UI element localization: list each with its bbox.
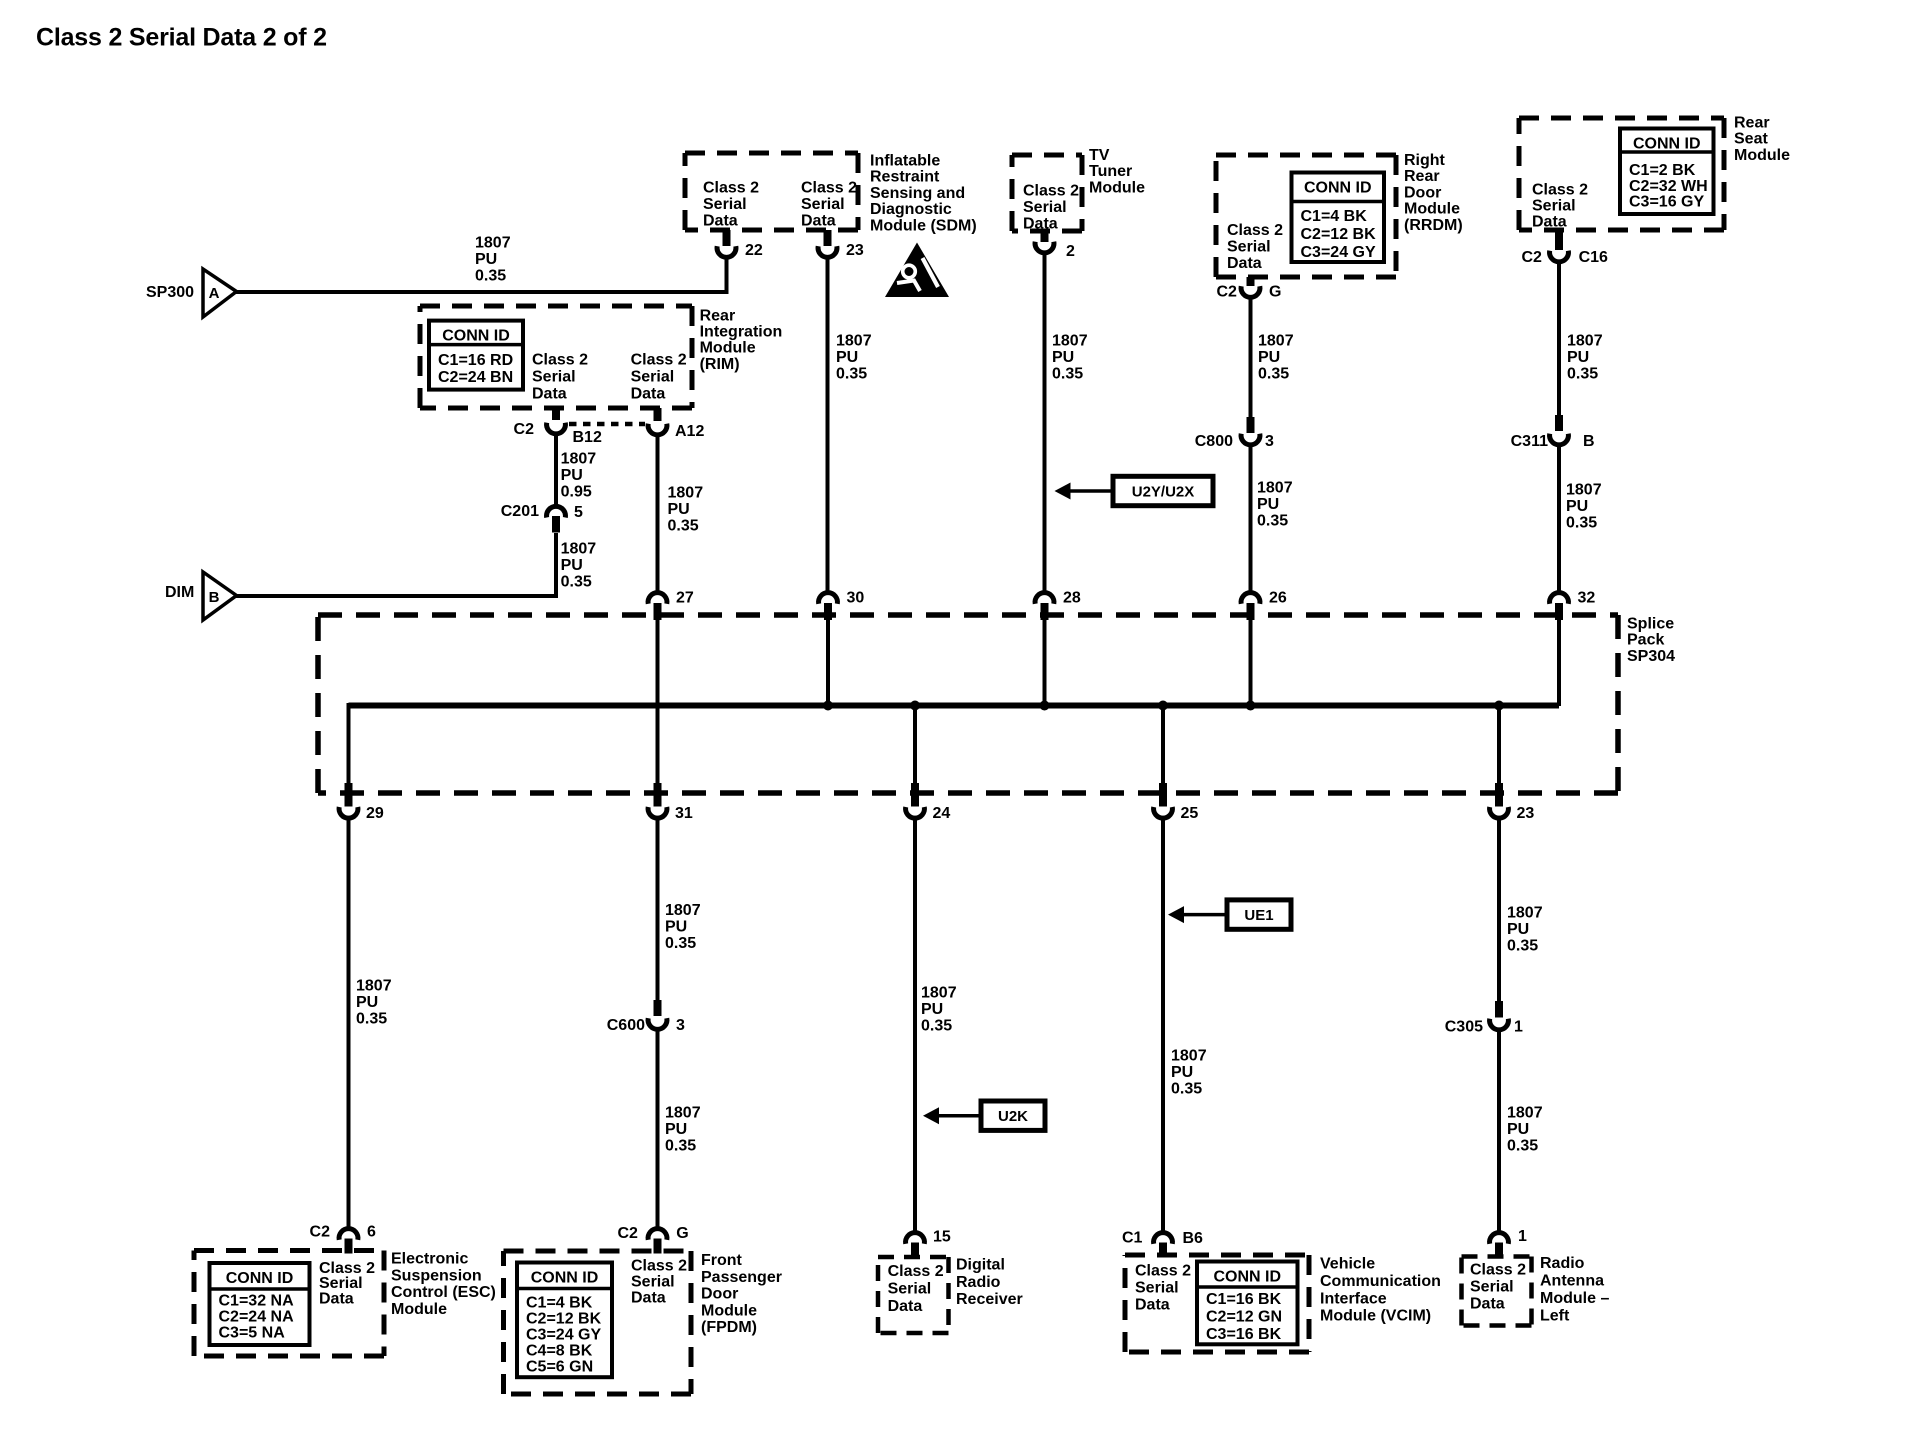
svg-text:Class 2: Class 2 (532, 352, 588, 369)
svg-text:Front: Front (701, 1252, 743, 1269)
svg-text:PU: PU (1566, 498, 1588, 515)
svg-text:C800: C800 (1195, 433, 1233, 450)
svg-text:PU: PU (561, 557, 583, 574)
svg-text:3: 3 (1265, 433, 1274, 450)
svg-text:Interface: Interface (1320, 1290, 1387, 1307)
svg-text:0.35: 0.35 (1507, 938, 1538, 955)
svg-text:Module (VCIM): Module (VCIM) (1320, 1308, 1431, 1325)
svg-text:Splice: Splice (1627, 616, 1674, 633)
svg-text:CONN ID: CONN ID (1304, 180, 1372, 197)
svg-text:Communication: Communication (1320, 1273, 1441, 1290)
svg-text:C311: C311 (1511, 433, 1548, 450)
svg-text:B: B (1583, 433, 1595, 450)
svg-text:CONN ID: CONN ID (226, 1270, 294, 1287)
svg-text:Rear: Rear (1734, 115, 1770, 132)
svg-text:Pack: Pack (1627, 632, 1664, 649)
svg-text:Antenna: Antenna (1540, 1273, 1604, 1290)
svg-text:(RIM): (RIM) (700, 356, 740, 373)
svg-text:0.35: 0.35 (356, 1011, 387, 1028)
svg-text:Serial: Serial (532, 369, 576, 386)
svg-text:Control (ESC): Control (ESC) (391, 1284, 496, 1301)
svg-text:Class 2: Class 2 (1470, 1262, 1526, 1279)
svg-text:Serial: Serial (703, 196, 747, 213)
svg-text:0.35: 0.35 (561, 574, 592, 591)
svg-text:C1=16 BK: C1=16 BK (1206, 1291, 1282, 1308)
svg-text:1807: 1807 (665, 1105, 701, 1122)
svg-text:C1: C1 (1122, 1230, 1143, 1247)
svg-text:Passenger: Passenger (701, 1269, 782, 1286)
svg-text:C2=24 NA: C2=24 NA (219, 1309, 295, 1326)
svg-text:25: 25 (1181, 805, 1199, 822)
svg-text:Receiver: Receiver (956, 1291, 1023, 1308)
svg-text:29: 29 (366, 805, 384, 822)
svg-text:1807: 1807 (561, 541, 597, 558)
svg-text:C2: C2 (1217, 284, 1238, 301)
svg-text:1807: 1807 (1257, 480, 1293, 497)
svg-text:PU: PU (1257, 496, 1279, 513)
svg-text:PU: PU (668, 501, 690, 518)
svg-text:C1=32 NA: C1=32 NA (219, 1293, 295, 1310)
svg-text:G: G (676, 1225, 688, 1242)
svg-text:Tuner: Tuner (1089, 163, 1132, 180)
svg-text:Class 2: Class 2 (1532, 182, 1588, 199)
svg-text:Suspension: Suspension (391, 1267, 482, 1284)
svg-text:32: 32 (1578, 590, 1596, 607)
svg-text:C3=24 GY: C3=24 GY (526, 1327, 601, 1344)
svg-text:0.35: 0.35 (1258, 366, 1289, 383)
svg-text:Radio: Radio (956, 1274, 1001, 1291)
svg-text:Sensing and: Sensing and (870, 185, 965, 202)
svg-text:Serial: Serial (1470, 1279, 1514, 1296)
svg-text:1807: 1807 (1052, 333, 1088, 350)
svg-text:C16: C16 (1579, 249, 1608, 266)
svg-text:1807: 1807 (1507, 905, 1543, 922)
svg-text:6: 6 (367, 1224, 376, 1241)
svg-text:Class 2 Serial Data 2 of 2: Class 2 Serial Data 2 of 2 (36, 24, 327, 52)
svg-text:Data: Data (1532, 214, 1567, 231)
svg-text:3: 3 (676, 1017, 685, 1034)
svg-text:Data: Data (631, 1290, 666, 1307)
svg-text:Module: Module (700, 340, 756, 357)
svg-text:SP304: SP304 (1627, 648, 1675, 665)
svg-text:31: 31 (675, 805, 693, 822)
svg-text:30: 30 (847, 590, 865, 607)
svg-text:0.35: 0.35 (1507, 1138, 1538, 1155)
svg-text:Diagnostic: Diagnostic (870, 201, 952, 218)
svg-text:0.35: 0.35 (475, 268, 506, 285)
svg-text:0.35: 0.35 (668, 518, 699, 535)
svg-text:C2: C2 (310, 1224, 331, 1241)
svg-text:0.35: 0.35 (836, 366, 867, 383)
svg-text:CONN ID: CONN ID (1213, 1269, 1281, 1286)
svg-text:Module: Module (391, 1301, 447, 1318)
svg-text:C1=2 BK: C1=2 BK (1629, 162, 1696, 179)
svg-text:Data: Data (319, 1290, 354, 1307)
svg-text:A: A (209, 285, 220, 302)
svg-text:Seat: Seat (1734, 131, 1768, 148)
svg-text:22: 22 (745, 242, 763, 259)
svg-text:Data: Data (532, 386, 567, 403)
svg-text:C1=16 RD: C1=16 RD (438, 352, 513, 369)
svg-text:C2=32 WH: C2=32 WH (1629, 178, 1708, 195)
svg-text:Class 2: Class 2 (1227, 222, 1283, 239)
svg-text:1807: 1807 (475, 235, 511, 252)
svg-text:Data: Data (631, 386, 666, 403)
svg-text:Class 2: Class 2 (631, 352, 687, 369)
svg-text:B: B (209, 589, 220, 606)
svg-text:0.95: 0.95 (561, 484, 592, 501)
svg-text:Data: Data (801, 213, 836, 230)
svg-text:PU: PU (356, 994, 378, 1011)
svg-text:1807: 1807 (921, 985, 957, 1002)
svg-text:Module (SDM): Module (SDM) (870, 217, 977, 234)
svg-text:Integration: Integration (700, 324, 783, 341)
svg-text:PU: PU (1507, 1121, 1529, 1138)
svg-text:CONN ID: CONN ID (1633, 136, 1701, 153)
svg-text:C2: C2 (1522, 249, 1543, 266)
svg-text:C201: C201 (501, 503, 539, 520)
svg-text:Class 2: Class 2 (631, 1258, 687, 1275)
svg-text:C2=12 BK: C2=12 BK (526, 1311, 602, 1328)
svg-text:C2=12 GN: C2=12 GN (1206, 1308, 1282, 1325)
svg-text:UE1: UE1 (1244, 907, 1273, 924)
svg-text:B12: B12 (573, 429, 602, 446)
svg-text:Serial: Serial (631, 1274, 675, 1291)
svg-text:0.35: 0.35 (921, 1018, 952, 1035)
svg-text:Data: Data (1135, 1297, 1170, 1314)
svg-text:23: 23 (1517, 805, 1535, 822)
svg-text:Class 2: Class 2 (1135, 1263, 1191, 1280)
svg-text:C305: C305 (1445, 1019, 1483, 1036)
svg-text:Module –: Module – (1540, 1290, 1609, 1307)
svg-text:Serial: Serial (801, 196, 845, 213)
svg-text:Serial: Serial (1532, 198, 1576, 215)
svg-text:C2=12 BK: C2=12 BK (1301, 226, 1377, 243)
svg-text:1807: 1807 (1567, 333, 1603, 350)
svg-text:28: 28 (1063, 590, 1081, 607)
svg-text:Class 2: Class 2 (1023, 183, 1079, 200)
svg-text:2: 2 (1066, 243, 1075, 260)
svg-text:1807: 1807 (836, 333, 872, 350)
svg-text:Rear: Rear (1404, 168, 1440, 185)
svg-text:Digital: Digital (956, 1257, 1005, 1274)
svg-text:SP300: SP300 (146, 284, 194, 301)
svg-text:TV: TV (1089, 147, 1110, 164)
svg-text:C3=24 GY: C3=24 GY (1301, 244, 1376, 261)
svg-text:PU: PU (1258, 349, 1280, 366)
svg-text:27: 27 (676, 590, 694, 607)
svg-text:1807: 1807 (668, 485, 704, 502)
svg-text:B6: B6 (1183, 1230, 1204, 1247)
svg-text:(FPDM): (FPDM) (701, 1319, 757, 1336)
svg-text:DIM: DIM (165, 584, 194, 601)
svg-text:24: 24 (933, 805, 951, 822)
svg-text:Module: Module (1404, 201, 1460, 218)
svg-text:Radio: Radio (1540, 1255, 1585, 1272)
svg-text:PU: PU (1171, 1064, 1193, 1081)
svg-text:0.35: 0.35 (1257, 513, 1288, 530)
svg-text:1: 1 (1518, 1228, 1527, 1245)
svg-text:1: 1 (1514, 1019, 1523, 1036)
svg-text:15: 15 (933, 1229, 951, 1246)
svg-text:C2=24 BN: C2=24 BN (438, 369, 513, 386)
svg-text:C600: C600 (607, 1017, 645, 1034)
svg-text:Serial: Serial (1135, 1280, 1179, 1297)
svg-text:0.35: 0.35 (1567, 366, 1598, 383)
svg-text:U2Y/U2X: U2Y/U2X (1132, 484, 1195, 501)
svg-text:CONN ID: CONN ID (442, 328, 510, 345)
svg-text:0.35: 0.35 (1566, 515, 1597, 532)
svg-text:Door: Door (1404, 184, 1441, 201)
svg-text:Module: Module (1734, 147, 1790, 164)
svg-text:Serial: Serial (631, 369, 675, 386)
svg-text:Data: Data (1227, 255, 1262, 272)
svg-text:PU: PU (561, 467, 583, 484)
svg-text:PU: PU (836, 349, 858, 366)
svg-text:1807: 1807 (1258, 333, 1294, 350)
svg-text:C2: C2 (514, 421, 535, 438)
svg-text:G: G (1269, 284, 1281, 301)
svg-text:Data: Data (1023, 216, 1058, 233)
svg-text:C4=8 BK: C4=8 BK (526, 1343, 593, 1360)
svg-text:Module: Module (1089, 179, 1145, 196)
svg-text:Rear: Rear (700, 307, 736, 324)
svg-text:1807: 1807 (1566, 482, 1602, 499)
svg-text:5: 5 (574, 504, 583, 521)
svg-text:0.35: 0.35 (665, 1138, 696, 1155)
svg-text:C1=4 BK: C1=4 BK (526, 1295, 593, 1312)
svg-text:PU: PU (1052, 349, 1074, 366)
svg-text:Class 2: Class 2 (888, 1263, 944, 1280)
svg-text:PU: PU (665, 1121, 687, 1138)
svg-text:1807: 1807 (356, 978, 392, 995)
svg-text:1807: 1807 (1507, 1105, 1543, 1122)
svg-text:0.35: 0.35 (665, 935, 696, 952)
svg-text:1807: 1807 (1171, 1048, 1207, 1065)
svg-text:Data: Data (703, 213, 738, 230)
svg-text:C2: C2 (617, 1225, 638, 1242)
svg-text:U2K: U2K (998, 1108, 1028, 1125)
svg-text:Electronic: Electronic (391, 1251, 468, 1268)
svg-text:Vehicle: Vehicle (1320, 1256, 1375, 1273)
svg-text:Data: Data (888, 1298, 923, 1315)
svg-text:Right: Right (1404, 152, 1446, 169)
svg-text:Door: Door (701, 1286, 738, 1303)
svg-text:PU: PU (475, 251, 497, 268)
svg-text:PU: PU (921, 1001, 943, 1018)
svg-text:Data: Data (1470, 1296, 1505, 1313)
svg-text:Left: Left (1540, 1308, 1570, 1325)
svg-text:PU: PU (665, 919, 687, 936)
svg-text:Class 2: Class 2 (703, 180, 759, 197)
svg-text:C3=16 GY: C3=16 GY (1629, 194, 1704, 211)
svg-text:Serial: Serial (1227, 239, 1271, 256)
svg-text:C5=6 GN: C5=6 GN (526, 1359, 593, 1376)
svg-text:23: 23 (846, 242, 864, 259)
svg-text:C1=4 BK: C1=4 BK (1301, 208, 1368, 225)
svg-text:Serial: Serial (1023, 199, 1067, 216)
svg-text:Module: Module (701, 1302, 757, 1319)
svg-text:CONN ID: CONN ID (531, 1270, 599, 1287)
svg-text:1807: 1807 (561, 451, 597, 468)
svg-text:A12: A12 (675, 423, 704, 440)
svg-text:Serial: Serial (888, 1280, 932, 1297)
svg-text:1807: 1807 (665, 902, 701, 919)
svg-text:Restraint: Restraint (870, 169, 940, 186)
svg-text:(RRDM): (RRDM) (1404, 217, 1463, 234)
svg-text:Class 2: Class 2 (801, 180, 857, 197)
svg-text:0.35: 0.35 (1171, 1081, 1202, 1098)
svg-text:Inflatable: Inflatable (870, 153, 940, 170)
svg-text:0.35: 0.35 (1052, 366, 1083, 383)
svg-text:26: 26 (1269, 590, 1287, 607)
svg-text:PU: PU (1507, 921, 1529, 938)
svg-text:C3=16 BK: C3=16 BK (1206, 1326, 1282, 1343)
svg-text:PU: PU (1567, 349, 1589, 366)
svg-text:C3=5 NA: C3=5 NA (219, 1325, 286, 1342)
